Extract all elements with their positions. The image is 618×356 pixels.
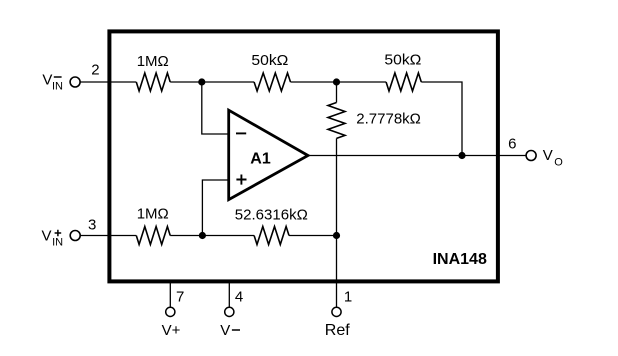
svg-text:1MΩ: 1MΩ xyxy=(137,205,169,222)
svg-text:V: V xyxy=(42,227,52,244)
wire node N4 to 52.6316k xyxy=(170,235,254,237)
wire Vin+ input lead (pin 3) xyxy=(80,235,136,237)
net label V- xyxy=(220,322,240,339)
svg-text:1: 1 xyxy=(344,289,352,306)
resistor 2.7778k&#937; (vertical) xyxy=(328,103,345,139)
net label Vin- xyxy=(42,71,63,92)
svg-text:V: V xyxy=(42,71,52,88)
svg-text:V+: V+ xyxy=(162,322,181,339)
resistor 1M&#937; (top) xyxy=(136,73,170,91)
wire node N2 to second 50k xyxy=(291,81,387,83)
wire pin 4 lead xyxy=(228,283,230,307)
net label Vin+ xyxy=(42,227,64,248)
terminal pin 7 circle xyxy=(166,307,175,316)
svg-text:7: 7 xyxy=(176,289,184,306)
resistor 50k&#937; (left) xyxy=(254,73,290,91)
svg-text:INA148: INA148 xyxy=(433,251,487,268)
terminal pin 1 circle xyxy=(332,307,341,316)
junction node N2 xyxy=(333,78,340,85)
resistor 52.6316k&#937; xyxy=(254,227,289,245)
svg-text:4: 4 xyxy=(235,289,243,306)
junction node N3 (output feedback) xyxy=(458,152,465,159)
svg-text:52.6316kΩ: 52.6316kΩ xyxy=(235,206,308,223)
wire feedback: 50k to output node xyxy=(421,82,462,156)
svg-text:1MΩ: 1MΩ xyxy=(137,53,169,70)
svg-text:A1: A1 xyxy=(250,150,271,167)
svg-text:6: 6 xyxy=(508,135,516,152)
wire Vin- input lead (pin 2) xyxy=(80,81,136,83)
resistor 1M&#937; (bottom) xyxy=(136,227,170,245)
svg-text:50kΩ: 50kΩ xyxy=(251,52,288,69)
op-amp U A1 triangle xyxy=(229,110,308,199)
op-amp inverting input minus sign xyxy=(236,132,246,134)
junction node N4 xyxy=(199,232,206,239)
terminal pin 4 circle xyxy=(225,307,234,316)
wire N4 to op-amp non-inverting input xyxy=(202,180,228,236)
wire 2.7778k bottom to Ref pin 1 xyxy=(336,138,338,307)
wire N1 to op-amp inverting input xyxy=(202,82,229,134)
svg-text:IN: IN xyxy=(52,237,63,249)
wire pin 7 lead xyxy=(169,283,171,307)
svg-text:50kΩ: 50kΩ xyxy=(384,52,421,69)
wire node N1 to 50k xyxy=(170,81,254,83)
IC boundary box INA148 xyxy=(109,31,498,281)
net label Vo xyxy=(543,147,564,169)
junction node N1 xyxy=(198,78,205,85)
wire node N2 down to 2.7778k top xyxy=(336,82,338,103)
svg-text:IN: IN xyxy=(52,81,63,93)
svg-text:O: O xyxy=(554,157,563,169)
svg-text:V: V xyxy=(543,147,553,164)
resistor 50k&#937; (right) xyxy=(386,73,421,91)
svg-text:2: 2 xyxy=(91,61,99,78)
svg-text:Ref: Ref xyxy=(325,322,350,339)
junction node N5 (Ref line) xyxy=(333,232,340,239)
wire op-amp output to pin 6 terminal xyxy=(308,155,526,157)
terminal pin 2 circle xyxy=(70,77,80,87)
wire 52.6316k to node N5 xyxy=(289,235,337,237)
svg-text:2.7778kΩ: 2.7778kΩ xyxy=(356,111,421,128)
terminal pin 3 circle xyxy=(70,231,80,241)
svg-text:3: 3 xyxy=(88,217,96,234)
terminal pin 6 circle xyxy=(526,151,536,161)
svg-text:V: V xyxy=(220,322,230,339)
op-amp non-inverting input plus sign xyxy=(236,175,246,185)
